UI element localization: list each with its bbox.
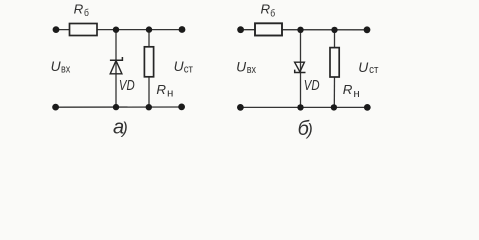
terminal dot bottom-right circuit a	[178, 104, 185, 111]
resistor Rb circuit a	[70, 24, 98, 36]
label Uvx circuit b	[236, 60, 256, 77]
svg-text:U: U	[51, 59, 62, 74]
terminal dot top-right circuit a	[179, 26, 186, 33]
junction dot bottom load circuit a	[146, 104, 152, 110]
junction dot bottom zener circuit b	[297, 104, 303, 110]
wire top rail circuit b	[241, 29, 368, 31]
svg-text:U: U	[236, 60, 247, 75]
svg-text:вх: вх	[247, 64, 257, 76]
junction dot top load circuit a	[146, 26, 152, 32]
junction dot bottom load circuit b	[331, 104, 337, 110]
svg-text:б: б	[84, 7, 89, 19]
label Rn circuit b	[343, 82, 360, 100]
label Rn circuit a	[156, 82, 173, 100]
junction dot top zener circuit b	[297, 27, 303, 33]
terminal dot top-left circuit b	[237, 26, 244, 33]
label Rb circuit a	[74, 2, 89, 19]
svg-text:R: R	[156, 82, 166, 97]
terminal dot bottom-left circuit a	[52, 104, 59, 111]
label Ust circuit b	[358, 60, 378, 76]
label Uvx circuit a	[51, 59, 71, 75]
terminal dot top-right circuit b	[364, 26, 371, 33]
junction dot bottom zener circuit a	[113, 104, 119, 110]
svg-text:U: U	[358, 60, 369, 75]
terminal dot bottom-left circuit b	[237, 104, 244, 111]
wire load branch lower circuit a	[148, 77, 150, 108]
label Rb circuit b	[261, 2, 276, 20]
wire load branch upper circuit a	[148, 30, 150, 48]
svg-text:б: б	[270, 7, 275, 19]
svg-text:н: н	[353, 88, 359, 100]
junction dot top load circuit b	[331, 27, 337, 33]
svg-text:VD: VD	[119, 78, 135, 94]
svg-text:а): а)	[113, 117, 128, 139]
zener diode VD circuit a	[110, 57, 123, 74]
wire bottom rail circuit b	[240, 106, 367, 108]
wire zener branch circuit a	[115, 30, 117, 108]
terminal dot bottom-right circuit b	[364, 104, 371, 111]
wire top rail circuit a	[56, 29, 182, 31]
terminal dot top-left circuit a	[53, 26, 60, 33]
wire load branch upper circuit b	[334, 30, 336, 49]
svg-text:R: R	[74, 2, 84, 17]
wire load branch lower circuit b	[333, 77, 335, 108]
wire zener branch circuit b	[300, 30, 302, 108]
wire bottom rail circuit a	[56, 106, 182, 108]
resistor Rn circuit a	[144, 47, 153, 77]
zener diode VD circuit b	[295, 62, 306, 72]
svg-text:VD: VD	[304, 78, 320, 94]
label Ust circuit a	[174, 59, 193, 75]
svg-text:ст: ст	[369, 64, 378, 76]
svg-text:R: R	[343, 82, 353, 97]
svg-text:ст: ст	[184, 64, 193, 76]
svg-text:б): б)	[298, 118, 313, 140]
svg-text:н: н	[167, 88, 173, 100]
resistor Rb circuit b	[255, 23, 282, 35]
resistor Rn circuit b	[330, 48, 339, 77]
junction dot top zener circuit a	[113, 27, 119, 33]
svg-text:R: R	[261, 2, 271, 17]
svg-text:вх: вх	[61, 64, 71, 76]
